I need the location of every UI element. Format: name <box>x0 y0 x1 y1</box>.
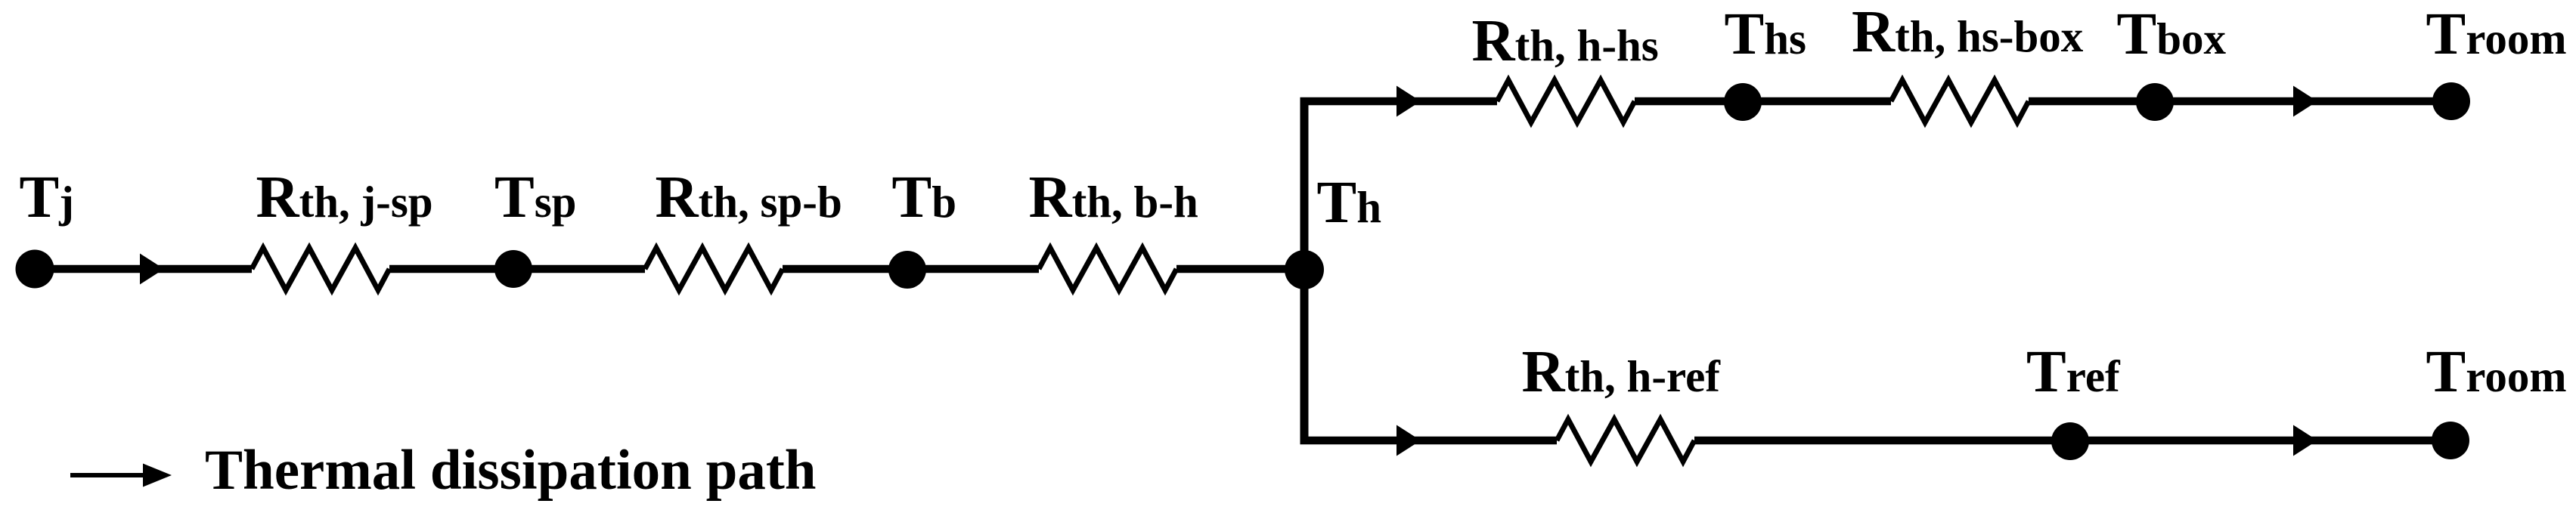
legend arrow Thermal dissipation path <box>70 464 172 487</box>
resistor Rth, h-hs <box>1497 80 1635 122</box>
svg-text:Tsp: Tsp <box>494 165 576 230</box>
node Tbox <box>2136 83 2174 121</box>
svg-text:Tref: Tref <box>2026 339 2121 405</box>
arrow lower branch right <box>2293 425 2317 456</box>
svg-text:Tb: Tb <box>892 165 957 230</box>
wire lower branch Th corner to R6 <box>1300 437 1558 445</box>
wire R3 to node Th <box>1176 265 1306 273</box>
svg-text:Rth, h-hs: Rth, h-hs <box>1472 8 1659 74</box>
resistor Rth, hs-box <box>1891 80 2029 122</box>
svg-text:Rth, sp-b: Rth, sp-b <box>656 165 842 230</box>
resistor Rth, j-sp <box>252 248 389 290</box>
arrow upper branch left <box>1396 86 1421 117</box>
svg-text:Troom: Troom <box>2426 339 2567 405</box>
node Tref <box>2051 422 2089 460</box>
svg-text:Rth, b-h: Rth, b-h <box>1029 165 1198 230</box>
svg-text:Troom: Troom <box>2426 2 2567 67</box>
svg-text:Rth, h-ref: Rth, h-ref <box>1522 339 1722 405</box>
svg-text:Ths: Ths <box>1725 2 1806 67</box>
node Tsp <box>494 250 532 288</box>
wire R4 to Ths to R5 <box>1635 97 1891 106</box>
arrow upper branch right <box>2293 86 2317 117</box>
svg-text:Rth, j-sp: Rth, j-sp <box>256 165 433 230</box>
wire R5 to Tbox to Troom upper <box>2029 97 2451 106</box>
wire R1 to Tsp to R2 <box>389 265 645 273</box>
wire R2 to Tb to R3 <box>783 265 1039 273</box>
node Tb <box>888 251 926 289</box>
node Ths <box>1724 83 1762 121</box>
wire Tj to R1 <box>35 265 252 273</box>
node Tj <box>16 250 54 289</box>
resistor Rth, h-ref <box>1557 419 1694 462</box>
svg-text:Thermal dissipation path: Thermal dissipation path <box>205 439 817 502</box>
svg-text:Th: Th <box>1317 170 1382 236</box>
arrow main path <box>140 254 164 285</box>
node Th <box>1285 250 1324 289</box>
node Troom upper <box>2432 82 2470 120</box>
svg-text:Rth, hs-box: Rth, hs-box <box>1852 0 2084 65</box>
wire R6 to Tref to Troom lower <box>1694 437 2450 445</box>
arrow lower branch left <box>1396 425 1421 456</box>
svg-text:Tj: Tj <box>20 165 74 230</box>
svg-text:Tbox: Tbox <box>2117 2 2227 67</box>
resistor Rth, b-h <box>1039 248 1176 290</box>
wire upper branch Th corner to R4 <box>1300 97 1498 106</box>
node Troom lower <box>2432 422 2469 459</box>
resistor Rth, sp-b <box>645 248 783 290</box>
wire vertical branch at Th <box>1300 101 1309 440</box>
